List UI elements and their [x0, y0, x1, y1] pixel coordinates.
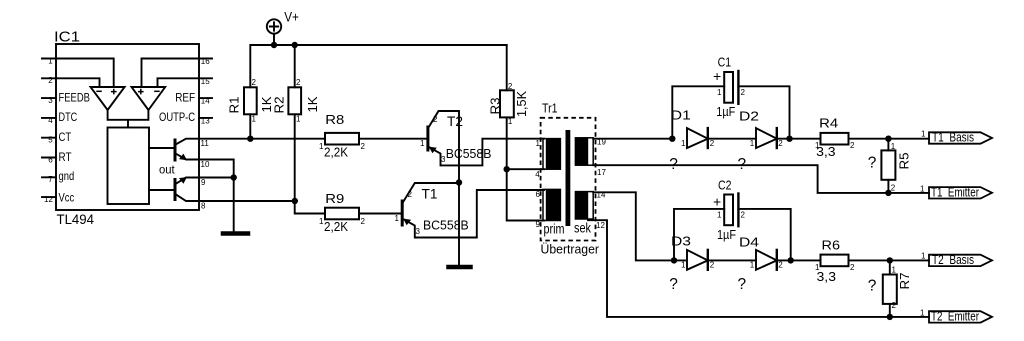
svg-text:4: 4 [48, 116, 53, 125]
svg-text:1: 1 [681, 139, 686, 148]
svg-text:V+: V+ [284, 10, 299, 25]
svg-text:R7: R7 [897, 273, 912, 290]
svg-text:IC1: IC1 [54, 30, 80, 46]
svg-text:Übertrager: Übertrager [541, 242, 600, 257]
svg-text:2: 2 [408, 190, 413, 199]
svg-text:REF: REF [175, 90, 195, 104]
svg-text:1: 1 [717, 88, 722, 97]
svg-text:+: + [713, 194, 721, 210]
svg-text:DTC: DTC [59, 110, 78, 124]
svg-text:1,5K: 1,5K [514, 91, 529, 117]
svg-text:3: 3 [441, 155, 446, 164]
svg-text:3: 3 [416, 227, 421, 236]
svg-text:prim: prim [544, 222, 565, 237]
svg-text:1: 1 [395, 214, 400, 223]
svg-text:2: 2 [252, 78, 257, 87]
svg-text:T2_Emitter: T2_Emitter [931, 310, 979, 324]
svg-text:1: 1 [920, 185, 925, 194]
svg-text:R4: R4 [819, 116, 838, 131]
svg-text:6: 6 [48, 155, 53, 164]
svg-text:C2: C2 [718, 178, 732, 193]
svg-text:?: ? [738, 156, 747, 173]
svg-text:9: 9 [201, 178, 206, 187]
svg-text:1: 1 [252, 115, 257, 124]
svg-text:1µF: 1µF [717, 227, 736, 242]
svg-text:+: + [713, 68, 721, 84]
svg-text:1: 1 [750, 261, 755, 270]
svg-text:D2: D2 [739, 109, 759, 124]
svg-text:4: 4 [535, 170, 540, 179]
svg-text:2: 2 [508, 82, 513, 91]
svg-text:15: 15 [201, 77, 210, 86]
svg-text:1: 1 [508, 117, 513, 126]
svg-text:1K: 1K [305, 96, 320, 112]
svg-text:R2: R2 [271, 97, 286, 114]
svg-text:T1: T1 [422, 186, 438, 202]
svg-text:out: out [159, 162, 175, 176]
svg-text:11: 11 [201, 139, 210, 148]
svg-text:D1: D1 [671, 108, 691, 123]
svg-text:1: 1 [892, 266, 897, 275]
svg-text:2,2K: 2,2K [324, 145, 348, 160]
svg-text:2: 2 [741, 211, 746, 220]
svg-text:2: 2 [891, 184, 896, 193]
svg-text:Tr1: Tr1 [542, 101, 558, 116]
svg-text:2: 2 [850, 141, 855, 150]
svg-text:sek: sek [574, 221, 591, 236]
svg-text:R8: R8 [325, 112, 344, 127]
svg-text:BC558B: BC558B [423, 218, 469, 233]
svg-text:FEEDB: FEEDB [59, 90, 90, 104]
svg-text:2: 2 [296, 78, 301, 87]
svg-text:2,2K: 2,2K [324, 219, 348, 234]
svg-text:TL494: TL494 [57, 211, 95, 227]
svg-text:12: 12 [44, 195, 53, 204]
svg-text:1: 1 [319, 217, 324, 226]
svg-text:7: 7 [48, 175, 53, 184]
svg-text:1: 1 [891, 142, 896, 151]
svg-text:R3: R3 [488, 98, 503, 115]
svg-text:1: 1 [920, 309, 925, 318]
svg-text:D4: D4 [739, 235, 759, 250]
svg-text:13: 13 [201, 116, 210, 125]
svg-text:2: 2 [361, 217, 366, 226]
svg-text:9: 9 [536, 220, 541, 229]
svg-text:2: 2 [361, 142, 366, 151]
svg-text:1: 1 [815, 141, 820, 150]
svg-text:1: 1 [48, 56, 53, 65]
svg-text:2: 2 [433, 115, 438, 124]
svg-text:?: ? [738, 276, 747, 293]
svg-text:1: 1 [717, 211, 722, 220]
svg-text:12: 12 [596, 221, 605, 230]
svg-text:?: ? [868, 278, 877, 295]
svg-text:17: 17 [597, 168, 606, 177]
svg-text:T1_Basis: T1_Basis [932, 131, 974, 145]
svg-text:14: 14 [597, 191, 606, 200]
svg-text:2: 2 [710, 261, 715, 270]
svg-text:1µF: 1µF [716, 104, 735, 119]
svg-text:R9: R9 [325, 191, 344, 206]
svg-text:D3: D3 [671, 234, 691, 249]
svg-text:1: 1 [750, 139, 755, 148]
svg-text:19: 19 [597, 138, 606, 147]
svg-text:1: 1 [815, 263, 820, 272]
svg-text:gnd: gnd [59, 169, 75, 183]
svg-text:16: 16 [201, 57, 210, 66]
svg-text:T2: T2 [447, 113, 463, 129]
svg-text:5: 5 [48, 136, 53, 145]
svg-text:1: 1 [921, 252, 926, 261]
svg-text:2: 2 [850, 263, 855, 272]
svg-text:1: 1 [681, 261, 686, 270]
svg-text:OUTP-C: OUTP-C [159, 110, 195, 124]
svg-text:Vcc: Vcc [59, 191, 75, 205]
svg-text:?: ? [669, 276, 678, 293]
svg-text:T2_Basis: T2_Basis [932, 253, 974, 267]
svg-text:2: 2 [778, 139, 783, 148]
svg-text:1: 1 [296, 115, 301, 124]
svg-text:BC558B: BC558B [446, 146, 492, 161]
svg-text:2: 2 [778, 261, 783, 270]
svg-text:R6: R6 [822, 238, 841, 253]
svg-text:1: 1 [420, 139, 425, 148]
svg-text:CT: CT [59, 130, 72, 144]
svg-text:RT: RT [59, 150, 73, 164]
svg-text:6: 6 [536, 190, 541, 199]
svg-text:T1_Emitter: T1_Emitter [931, 185, 979, 199]
svg-text:2: 2 [710, 139, 715, 148]
svg-text:8: 8 [201, 202, 206, 211]
svg-text:?: ? [669, 156, 678, 173]
svg-text:1: 1 [536, 139, 541, 148]
svg-text:R1: R1 [227, 97, 242, 114]
svg-text:3: 3 [48, 96, 53, 105]
svg-text:1: 1 [921, 130, 926, 139]
svg-text:2: 2 [892, 301, 897, 310]
svg-text:10: 10 [201, 160, 210, 169]
svg-text:14: 14 [201, 97, 210, 106]
svg-text:R5: R5 [897, 153, 912, 170]
svg-text:?: ? [868, 155, 877, 172]
svg-text:1: 1 [319, 142, 324, 151]
svg-text:2: 2 [741, 88, 746, 97]
svg-text:2: 2 [48, 76, 53, 85]
